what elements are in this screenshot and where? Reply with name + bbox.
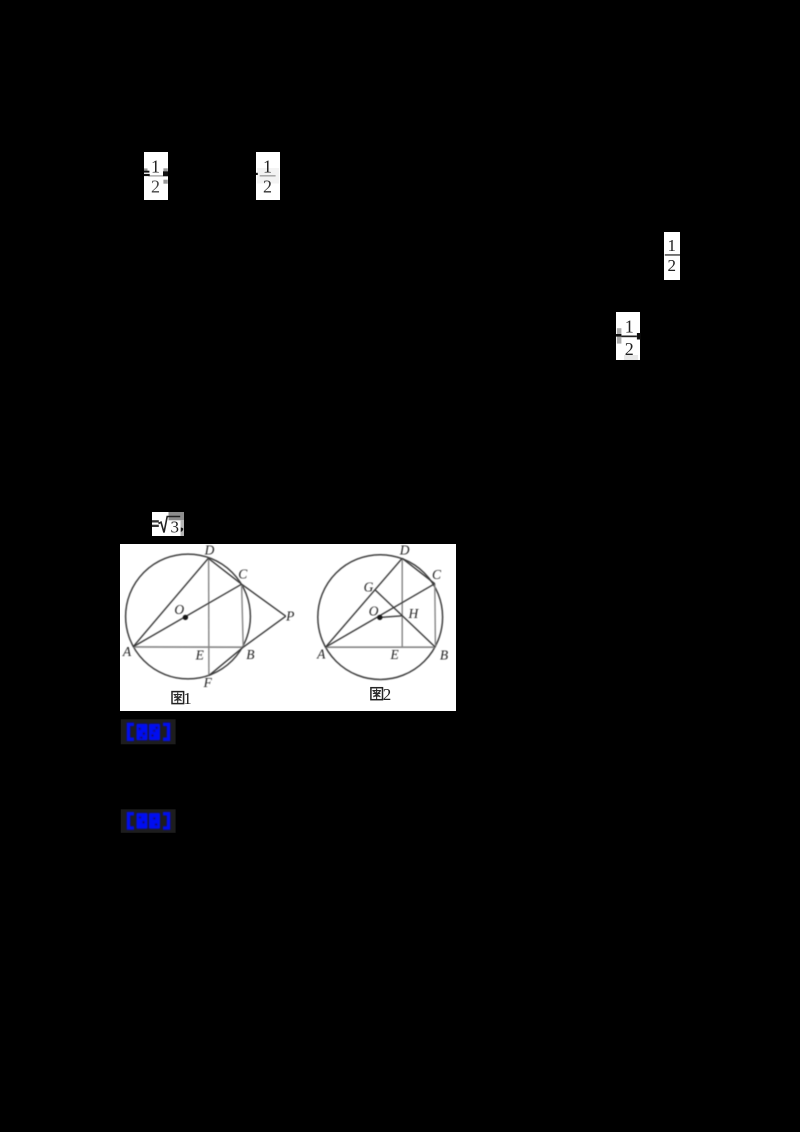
figure 1: line D-C-P — [208, 558, 285, 616]
svg-text:A: A — [122, 644, 132, 659]
svg-text:C: C — [238, 567, 248, 582]
svg-text:2: 2 — [263, 176, 272, 196]
svg-text:2: 2 — [383, 685, 392, 704]
figure 2: diameter AC — [326, 584, 435, 648]
highlighted label 2 (blue bracketed text) — [121, 809, 176, 833]
figure 2: center dot O — [377, 615, 382, 620]
figure 2: chord AD — [326, 558, 403, 647]
svg-text:2: 2 — [668, 256, 677, 275]
svg-text:C: C — [432, 567, 442, 582]
figure 2 caption — [371, 685, 391, 704]
figure 1: segment DF through E — [208, 558, 210, 675]
svg-text:B: B — [246, 647, 254, 662]
svg-text:1: 1 — [625, 317, 634, 337]
figure 1: chord BF — [209, 647, 243, 675]
equation image box 4 (fraction -1/2) — [616, 312, 641, 360]
highlighted label 1 (blue bracketed text) — [121, 719, 176, 744]
equation image box 2 (fraction 1/2) — [256, 152, 280, 200]
figure 1: circle O — [126, 554, 251, 679]
figure 1: chord AD — [133, 558, 208, 647]
figure 2: circle O — [318, 555, 443, 680]
svg-text:E: E — [195, 647, 205, 662]
equation image box 5 (= sqrt 3) — [152, 512, 184, 537]
figure 1: line B-P — [243, 616, 286, 647]
figure image: white rectangle with two circle diagrams — [120, 544, 456, 711]
svg-text:1: 1 — [151, 157, 160, 177]
svg-text:D: D — [399, 543, 410, 558]
svg-text:A: A — [316, 646, 326, 661]
figure 2: segment DE — [401, 558, 403, 647]
figure 2: segment GB through H — [375, 590, 435, 647]
figure 2: segment CB — [434, 584, 437, 648]
svg-text:O: O — [369, 603, 379, 618]
svg-text:D: D — [204, 543, 215, 558]
svg-text:B: B — [440, 647, 448, 662]
svg-text:H: H — [408, 606, 420, 621]
svg-text:1: 1 — [263, 157, 272, 177]
figure 2: chord DC — [402, 558, 435, 583]
figure 1: chord AB — [133, 646, 243, 648]
svg-text:P: P — [285, 608, 294, 623]
svg-text:3: 3 — [171, 518, 180, 537]
figure 2: chord AB — [326, 646, 436, 648]
svg-text:2: 2 — [625, 339, 634, 359]
svg-text:1: 1 — [668, 236, 677, 255]
svg-text:E: E — [389, 647, 399, 662]
figure 2: segment OH — [380, 616, 402, 618]
equation image box 1 (fraction 1/2) — [144, 152, 168, 200]
figure 1: diameter AC — [133, 584, 242, 647]
equation image box 3 (fraction 1/2) — [664, 232, 680, 280]
svg-text:F: F — [203, 675, 213, 690]
figure 1: segment CB — [242, 584, 244, 647]
svg-text:G: G — [364, 579, 374, 594]
svg-text:O: O — [174, 602, 184, 617]
svg-text:2: 2 — [151, 176, 160, 196]
figure 1 caption — [172, 689, 192, 708]
figure 1: center dot O — [183, 615, 188, 620]
svg-text:1: 1 — [183, 689, 192, 708]
